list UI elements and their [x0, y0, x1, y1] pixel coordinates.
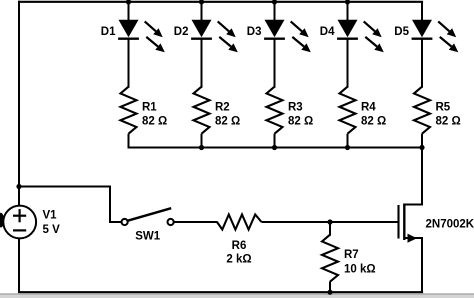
svg-text:10 kΩ: 10 kΩ: [344, 264, 376, 276]
wire left rail lower (V1- to ground rail): [18, 238, 20, 293]
resistor R3: [267, 87, 283, 134]
switch SW1: [122, 208, 174, 225]
LED D4: [337, 20, 384, 53]
svg-text:R4: R4: [361, 102, 376, 114]
wire D2 cathode to R2: [201, 39, 203, 88]
junction mid rail / R4: [345, 145, 350, 150]
resistor R1: [121, 87, 137, 134]
transistor Q1 2N7002K MOSFET: [399, 148, 423, 293]
svg-text:R2: R2: [215, 102, 230, 114]
shadow band below ground rail: [0, 293, 474, 295]
svg-text:82 Ω: 82 Ω: [142, 116, 167, 128]
svg-text:SW1: SW1: [135, 231, 161, 243]
svg-text:R6: R6: [232, 240, 247, 252]
svg-text:D2: D2: [174, 26, 189, 38]
svg-text:82 Ω: 82 Ω: [215, 116, 240, 128]
wire R1 to mid rail: [128, 134, 130, 149]
svg-text:R3: R3: [288, 102, 303, 114]
artifact blob at left edge of V1: [0, 213, 4, 228]
wire D1 anode from top rail: [128, 2, 130, 21]
wire D1 cathode to R1: [128, 39, 130, 88]
wire left rail upper (V1+ to top rail): [18, 1, 20, 206]
svg-text:D4: D4: [320, 26, 335, 38]
wire D2 anode from top rail: [201, 2, 203, 21]
junction top rail / D3: [272, 0, 277, 4]
svg-text:82 Ω: 82 Ω: [288, 116, 313, 128]
svg-text:R1: R1: [142, 102, 157, 114]
svg-text:82 Ω: 82 Ω: [361, 116, 386, 128]
svg-text:2 kΩ: 2 kΩ: [226, 253, 251, 265]
wire R7 bottom: [329, 282, 331, 294]
wire D5 cathode to R5: [421, 39, 423, 88]
wire R4 to mid rail: [347, 134, 349, 149]
wire D5 anode from top rail: [421, 2, 423, 21]
svg-text:V1: V1: [43, 210, 58, 222]
svg-text:D1: D1: [101, 26, 116, 38]
junction mid rail / R2: [199, 145, 204, 150]
resistor R7: [322, 235, 338, 282]
junction mid rail / drain riser: [419, 145, 424, 150]
junction mid rail / R3: [272, 145, 277, 150]
svg-text:2N7002K: 2N7002K: [426, 219, 474, 231]
junction gate wire / R7: [327, 219, 332, 224]
wire D3 anode from top rail: [274, 2, 276, 21]
wire R6 to gate: [262, 221, 398, 223]
voltage source V1: [3, 206, 36, 239]
svg-text:D5: D5: [394, 26, 409, 38]
resistor R2: [194, 87, 210, 134]
junction top rail / D1: [126, 0, 131, 4]
LED D5: [412, 20, 459, 53]
wire D4 anode from top rail: [347, 2, 349, 21]
junction ground rail / R7: [327, 290, 332, 295]
junction top rail / D2: [199, 0, 204, 4]
wire D3 cathode to R3: [274, 39, 276, 88]
resistor R4: [340, 87, 356, 134]
LED D2: [191, 20, 238, 53]
wire R2 to mid rail: [201, 134, 203, 149]
wire bottom ground rail: [18, 291, 423, 293]
wire branch to SW1: [19, 187, 121, 223]
junction top rail / D4: [345, 0, 350, 4]
svg-text:R5: R5: [436, 102, 451, 114]
wire SW1 to R6: [174, 221, 218, 223]
wire top +5V rail: [18, 1, 423, 3]
LED D3: [264, 20, 311, 53]
wire R3 to mid rail: [274, 134, 276, 149]
svg-text:82 Ω: 82 Ω: [436, 116, 461, 128]
wire D4 cathode to R4: [347, 39, 349, 88]
svg-text:D3: D3: [247, 26, 262, 38]
wire R5 to mid rail: [421, 134, 423, 149]
wire LED cathode mid rail: [128, 147, 424, 149]
svg-text:5 V: 5 V: [43, 224, 61, 236]
LED D1: [118, 20, 165, 53]
resistor R5: [414, 87, 430, 134]
junction left rail / switch branch: [16, 184, 21, 189]
svg-text:R7: R7: [344, 249, 359, 261]
wire R7 top: [329, 222, 331, 236]
resistor R6: [217, 215, 262, 230]
